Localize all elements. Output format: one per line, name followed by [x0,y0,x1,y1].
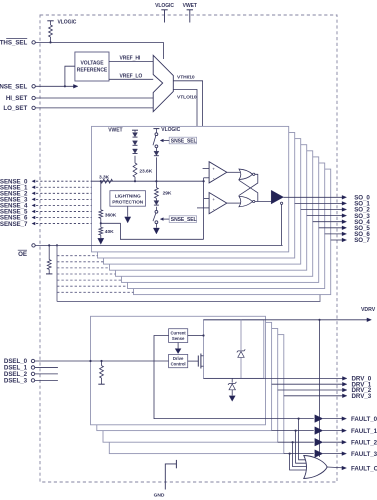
svg-text:VLOGIC: VLOGIC [161,127,180,133]
svg-text:FAULT_OR: FAULT_OR [351,465,377,472]
svg-text:VLOGIC: VLOGIC [58,19,77,25]
svg-text:+: + [212,166,215,171]
svg-text:Control: Control [171,362,186,367]
svg-text:REFERENCE: REFERENCE [77,67,108,73]
svg-text:LO_SET: LO_SET [3,105,27,112]
svg-text:LIGHTNING: LIGHTNING [115,194,141,200]
svg-text:VWET: VWET [183,3,197,9]
svg-text:Current: Current [171,330,187,335]
svg-text:FAULT_1: FAULT_1 [351,428,377,435]
svg-text:SNSE_SEL: SNSE_SEL [0,84,27,91]
svg-text:THS_SEL: THS_SEL [0,40,27,47]
svg-text:23.6K: 23.6K [139,168,152,174]
svg-text:360K: 360K [105,212,117,218]
svg-text:VOLTAGE: VOLTAGE [80,60,104,66]
svg-text:FAULT_3: FAULT_3 [351,451,377,458]
svg-text:SNSE_SEL: SNSE_SEL [171,139,197,145]
svg-text:VLOGIC: VLOGIC [155,3,174,9]
svg-text:DRV_3: DRV_3 [352,393,372,400]
svg-text:VDRV: VDRV [361,307,376,313]
svg-text:HI_SET: HI_SET [6,95,28,102]
svg-text:Sense: Sense [172,336,185,341]
svg-text:DSEL_3: DSEL_3 [4,378,28,385]
svg-text:VREF_LO: VREF_LO [120,73,143,79]
svg-text:29K: 29K [163,191,172,197]
svg-text:VWET: VWET [108,127,122,133]
svg-text:FAULT_2: FAULT_2 [351,439,377,446]
svg-text:+: + [212,197,215,202]
svg-text:FAULT_0: FAULT_0 [351,416,377,423]
svg-text:SNSE_SEL: SNSE_SEL [171,217,197,223]
svg-text:40K: 40K [105,229,114,235]
svg-text:OE: OE [18,251,27,258]
svg-text:VTLO/10: VTLO/10 [177,95,197,101]
svg-text:SENSE_7: SENSE_7 [0,221,28,228]
svg-text:GND: GND [154,493,165,499]
svg-text:SO_7: SO_7 [354,237,370,244]
svg-text:VTHI/10: VTHI/10 [177,75,195,81]
svg-text:Drive: Drive [173,356,184,361]
svg-text:VREF_HI: VREF_HI [120,56,141,62]
svg-text:PROTECTION: PROTECTION [112,200,144,206]
